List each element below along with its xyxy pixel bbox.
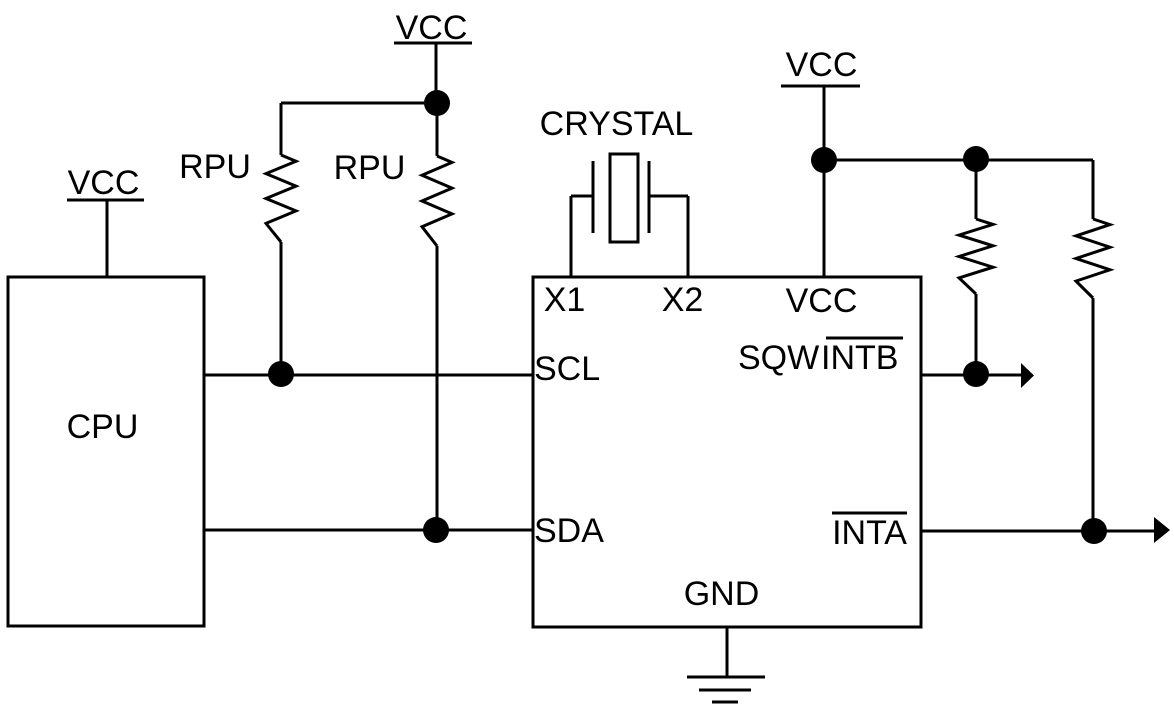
svg-text:INTA: INTA	[832, 514, 907, 552]
svg-text:CRYSTAL: CRYSTAL	[540, 105, 694, 143]
svg-text:CPU: CPU	[67, 408, 139, 446]
svg-text:RPU: RPU	[334, 149, 406, 187]
svg-text:SDA: SDA	[534, 512, 604, 550]
svg-text:VCC: VCC	[68, 164, 140, 202]
svg-text:VCC: VCC	[786, 46, 858, 84]
svg-text:VCC: VCC	[786, 282, 858, 320]
svg-text:SQW: SQW	[738, 339, 819, 377]
svg-text:INTB: INTB	[821, 339, 898, 377]
svg-text:X2: X2	[662, 281, 704, 319]
svg-text:VCC: VCC	[396, 9, 468, 47]
svg-text:SCL: SCL	[534, 350, 600, 388]
svg-text:GND: GND	[684, 575, 760, 613]
svg-text:RPU: RPU	[179, 148, 251, 186]
svg-text:X1: X1	[544, 281, 586, 319]
